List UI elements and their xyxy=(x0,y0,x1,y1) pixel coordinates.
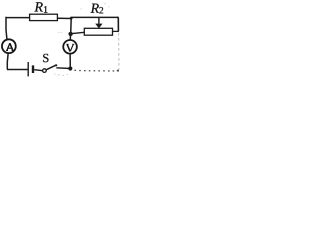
wire: voltmeter top stub xyxy=(69,34,71,40)
label S xyxy=(43,54,48,62)
resistor R1 xyxy=(30,14,58,20)
background xyxy=(0,0,122,79)
label R2 xyxy=(91,4,104,14)
wire: junction up to top wire xyxy=(70,18,73,34)
ammeter A xyxy=(2,39,16,53)
switch S pivot xyxy=(43,69,47,73)
rheostat R2 wiper arrowhead xyxy=(95,24,102,29)
wire: top horizontal right part (R1 to top-right corner) xyxy=(58,17,118,18)
battery positive plate (long) xyxy=(27,62,29,76)
wire: right vertical from top-right corner down to rheostat right terminal xyxy=(117,17,118,32)
scan noise specks xyxy=(54,3,110,76)
wire: junction to R2 left terminal xyxy=(71,32,85,33)
wire: battery to switch pivot xyxy=(34,70,43,71)
wire: switch right contact to bottom junction xyxy=(56,67,70,70)
battery negative plate (short, thick) xyxy=(32,65,34,73)
voltmeter V xyxy=(63,40,77,54)
switch blade tip dot xyxy=(55,64,57,66)
wire: junction up to voltmeter xyxy=(69,53,71,68)
wire: left vertical from top-left corner down to ammeter xyxy=(6,17,7,40)
label R1 xyxy=(34,2,47,12)
wire: faded right vertical (scan-degraded) from R2 down to bottom-right corner xyxy=(118,33,120,70)
rheostat R2 wiper arrow stem xyxy=(98,18,100,25)
wire: faded dotted bottom return wire xyxy=(74,70,119,72)
node: junction of voltmeter branch and R2 branch xyxy=(68,32,72,36)
wire: top horizontal from top-left corner to top-right corner xyxy=(6,17,58,19)
wire: from ammeter bottom to bottom-left corner xyxy=(6,53,9,70)
rheostat R2 body xyxy=(84,28,112,35)
wire: bottom horizontal from corner to battery xyxy=(7,69,28,71)
node: T-junction of voltmeter branch on top wire xyxy=(70,17,73,20)
switch S blade xyxy=(46,65,56,70)
node: bottom junction below voltmeter xyxy=(68,66,72,70)
wire: stub from right vertical to R2 right edge xyxy=(112,30,118,32)
